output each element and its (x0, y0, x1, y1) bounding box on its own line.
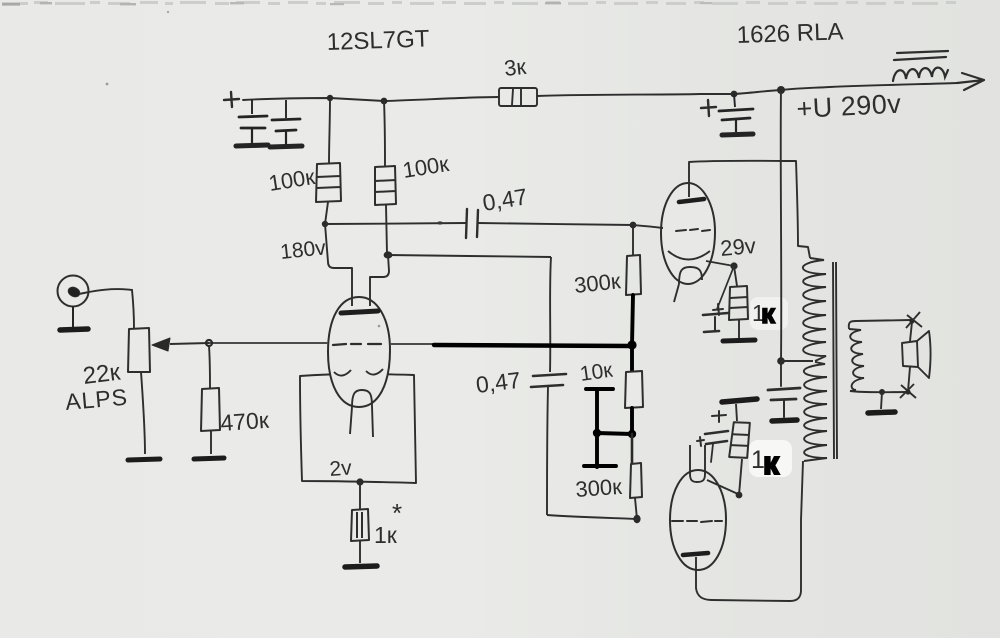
ground bar of 1k lower (722, 399, 757, 402)
shield box around 12SL7 lower section (300, 374, 416, 483)
dark smudges top left corner (2, 3, 20, 6)
resistor 3k body (499, 88, 537, 106)
node: B+ rail junction at filter cap (731, 91, 738, 98)
wire from lower 0,47 down to grid run (547, 387, 548, 515)
wire B+ top rail right of 3k (537, 83, 957, 96)
svg-text:300к: 300к (575, 474, 623, 502)
node: secondary ground junction (879, 389, 885, 395)
potentiometer 22k body (128, 328, 150, 372)
wire B+ top rail left of 3k (243, 97, 499, 101)
bold capacitor bottom plate (marker) (584, 464, 616, 468)
anode plate bar of 12SL7 (341, 311, 378, 313)
bold wire: 10k bottom to node (marker) (630, 408, 634, 434)
wire grid of 12SL7 toward right (thin part) (390, 343, 434, 345)
speaker terminal X top (906, 312, 922, 328)
white correction blob under 1k upper (750, 297, 788, 330)
transformer primary winding upper half (803, 258, 826, 361)
resistor 300k lower body (630, 463, 642, 498)
wire grid entry of upper 1626 (633, 225, 663, 228)
wire grid of 12SL7 from pot wiper (209, 342, 328, 344)
input jack (58, 276, 90, 307)
svg-text:180v: 180v (279, 236, 327, 264)
wire 300k upper top lead (632, 225, 634, 255)
node: cathode junction of lower 1626 (736, 492, 743, 499)
cathode arc of upper 1626 (668, 251, 710, 260)
svg-text:10к: 10к (578, 359, 614, 386)
node: B+ rail junction at transformer feed (777, 86, 785, 94)
plus sign at filter caps (224, 92, 239, 107)
wire cathode junction to bypass cap (717, 266, 734, 309)
tube 1626 lower envelope (670, 470, 726, 570)
wire 470k top lead (209, 346, 210, 388)
transformer primary winding lower half (804, 362, 827, 461)
svg-text:470к: 470к (220, 407, 271, 436)
svg-text:2v: 2v (329, 456, 353, 481)
node: cathode junction on shield box (356, 478, 363, 485)
wire 470k bottom lead (210, 431, 212, 454)
capacitor C1 (left filter electrolytic) (236, 99, 268, 146)
wire B+ vertical to transformer tap (780, 90, 783, 361)
wire vertical drop to lower 0,47 cap (550, 257, 551, 372)
wire 1k bottom lead (359, 541, 361, 563)
svg-text:0,47: 0,47 (474, 367, 522, 398)
node: grid junction of lower 1626 (633, 515, 640, 523)
capacitor cathode bypass upper (+ plates) (703, 304, 728, 332)
wire 1k lower top lead to bar (736, 404, 737, 421)
ground of pot (128, 459, 160, 460)
resistor 100k #2 body (375, 166, 396, 205)
capacitor B+ filter (plus sign) (701, 100, 716, 116)
node: bold junction at 10k bottom (marker) (628, 430, 636, 438)
svg-text:29v: 29v (719, 233, 757, 261)
bold capacitor top plate (marker) (586, 387, 613, 391)
wire secondary bottom lead (850, 391, 906, 392)
svg-text:+U 290v: +U 290v (796, 89, 902, 124)
wire pot bottom to ground (141, 372, 145, 454)
node: junction at transformer tap (777, 357, 785, 365)
anode wire of upper 1626 to transformer primary top (689, 161, 810, 258)
node: anode junction of first triode (322, 221, 328, 227)
wire tap to transformer (781, 360, 813, 362)
transformer secondary winding (849, 329, 864, 391)
bold wire: node to 10k top (marker) (630, 345, 634, 371)
svg-text:*: * (392, 498, 402, 528)
ground of 1k upper (723, 340, 755, 341)
resistor 470k body (201, 388, 220, 431)
wire grid run to lower 1626 grid node (547, 515, 637, 519)
svg-text:к: к (761, 298, 776, 329)
resistor 300k upper body (626, 255, 641, 295)
node: grid junction of upper 1626 (630, 222, 637, 229)
transformer core lines (833, 262, 837, 459)
tube 1626 upper envelope (661, 183, 715, 284)
cathode arcs of 12SL7 (334, 369, 383, 376)
wire from 0,47 to grid node of upper 1626 (478, 223, 633, 225)
bold capacitor lead vertical (marker) (595, 389, 599, 467)
ground of 470k (194, 458, 224, 459)
node: wiper junction ring (206, 340, 212, 346)
speaker terminal X bottom (900, 384, 916, 398)
svg-text:300к: 300к (573, 268, 622, 298)
ground of jack (59, 306, 88, 330)
wire 10k node down to 300k lower (631, 434, 634, 463)
wire 1k lower bottom lead (739, 459, 742, 495)
svg-text:к: к (763, 445, 780, 481)
ground of cathode 1k (345, 566, 377, 567)
heater legs of lower 1626 (690, 445, 705, 482)
wire 1k upper bottom lead (738, 320, 740, 338)
node: bold junction (marker) (627, 340, 636, 349)
bold wire: grid bus to driver (marker) (434, 345, 632, 346)
wire from second anode junction toward lower coupling cap (388, 255, 551, 257)
grid dashes of upper 1626 (676, 229, 710, 231)
resistor 10k body (625, 371, 643, 408)
svg-text:3к: 3к (503, 54, 528, 81)
wire R1 top lead (329, 98, 330, 163)
anode plate bar of lower 1626 (683, 553, 708, 555)
node: bold junction on cap lead (marker) (593, 429, 601, 437)
wire to secondary ground (881, 392, 882, 409)
paper specks (106, 83, 109, 86)
bold wire: horizontal link to bypass cap (marker) (597, 433, 632, 434)
resistor 1k lower body (tilted) (729, 421, 751, 459)
white correction blob under 1k lower (749, 440, 792, 477)
wire secondary top lead to speaker (849, 320, 911, 329)
wire R1 bottom lead (325, 202, 328, 224)
wire 300k lower bottom lead (635, 498, 637, 519)
pot wiper arrow (170, 343, 209, 344)
wire from first anode to coupling cap 0,47 (325, 223, 466, 224)
resistor 1k upper body (729, 286, 748, 320)
wire jack to pot top (89, 289, 134, 328)
output choke symbol top right (893, 51, 948, 81)
wire cathode junction to 1k (734, 266, 737, 286)
tube 12SL7 envelope (328, 297, 390, 407)
ground of snubber cap (772, 420, 797, 421)
wire R2 top lead (384, 101, 385, 166)
cathode wire to junction (706, 261, 734, 266)
node: rail junction at R1 (327, 95, 333, 101)
wire first anode lead into tube (325, 224, 352, 306)
wire cathode resistor top lead (359, 482, 361, 509)
cathode diagonal wire to junction (707, 480, 738, 494)
speaker body (902, 322, 931, 391)
ground of secondary (868, 412, 895, 413)
heater loop and legs of 12SL7 (350, 390, 373, 437)
resistor 1k cathode body (with double bars) (351, 509, 369, 541)
heater loop of upper 1626 (674, 267, 702, 302)
wire second anode lead into tube (370, 255, 389, 306)
svg-text:12SL7GT: 12SL7GT (326, 25, 430, 56)
grid dashes of lower 1626 (672, 521, 722, 522)
bold wire: 300k bottom to node (marker) (632, 295, 633, 345)
svg-text:ALPS: ALPS (64, 384, 129, 415)
capacitor across primary (snubber) body (768, 361, 800, 417)
capacitor cathode bypass lower (+ plates) (697, 411, 728, 462)
svg-text:1626 RLA: 1626 RLA (736, 18, 844, 49)
resistor 100k #1 body (316, 163, 341, 202)
ink blob on wire (437, 221, 443, 224)
anode plate bar of upper 1626 (679, 199, 704, 202)
capacitor B+ filter body (719, 94, 753, 135)
wire R2 bottom lead (386, 205, 387, 254)
grid dashes of 12SL7 (333, 344, 381, 345)
arrow head of B+ rail (957, 73, 984, 90)
paper top edge noise band (2, 1, 956, 5)
capacitor 0,47 upper (coupling) (466, 209, 478, 238)
capacitor C2 (second filter electrolytic) (270, 100, 302, 147)
node: rail junction at R2 (381, 98, 388, 105)
anode wire of lower 1626 to transformer primary bottom (696, 461, 803, 601)
node: anode junction of second triode (384, 251, 393, 258)
capacitor 0,47 lower (coupling to lower 1626) (531, 374, 566, 387)
node: cathode junction of upper 1626 (730, 262, 737, 269)
